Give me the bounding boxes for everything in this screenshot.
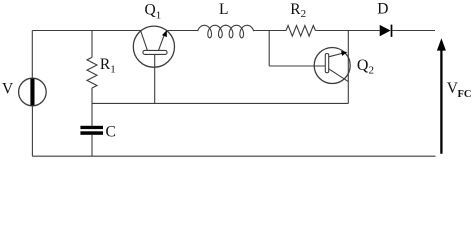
transistor Q2 emitter arrowhead: [341, 51, 347, 56]
capacitor C top plate: [80, 126, 103, 129]
wire bottom rail: [32, 155, 435, 157]
transistor Q1 base lead down: [154, 55, 156, 104]
wire Q1 to inductor: [167, 30, 199, 32]
wire junction to Q2 base vertical: [268, 31, 270, 67]
transistor Q1 collector lead: [140, 30, 147, 50]
svg-text:R2: R2: [290, 1, 306, 20]
wire left vertical lower: [31, 106, 33, 156]
svg-text:Q1: Q1: [145, 2, 162, 22]
svg-text:C: C: [106, 124, 116, 141]
svg-text:D: D: [377, 0, 388, 17]
wire top-left segment: [32, 30, 141, 32]
transistor Q1 emitter arrowhead: [162, 30, 167, 37]
voltage source V1 bar: [30, 79, 34, 106]
transistor Q1 emitter lead: [159, 32, 166, 50]
diode D triangle: [380, 25, 391, 36]
transistor Q1 base bar: [143, 50, 167, 54]
svg-text:Q2: Q2: [357, 57, 374, 76]
transistor Q1 circle: [133, 26, 174, 67]
capacitor C bottom plate: [80, 131, 103, 135]
voltage source V1 circle: [19, 78, 47, 106]
wire capacitor to bottom rail: [91, 135, 93, 156]
wire Q2 right vertical: [347, 31, 349, 104]
wire middle rail: [92, 102, 348, 104]
wire left vertical upper: [31, 31, 33, 79]
transistor Q2 circle: [314, 48, 350, 84]
inductor L coil: [198, 25, 254, 38]
transistor Q2 emitter lead: [329, 53, 344, 57]
wire diode to right end: [392, 30, 435, 32]
wire inductor to R2: [253, 30, 286, 32]
wire R1 bottom to capacitor: [91, 88, 93, 126]
wire R1 branch top: [91, 31, 93, 58]
svg-text:V: V: [2, 81, 14, 98]
svg-text:R1: R1: [100, 56, 116, 75]
svg-text:VFC: VFC: [447, 80, 472, 100]
output arrow VFC head: [437, 38, 446, 50]
transistor Q2 base bar: [325, 54, 328, 73]
svg-text:L: L: [219, 1, 228, 18]
diode D cathode bar: [391, 25, 393, 37]
transistor Q2 collector lead: [329, 69, 349, 82]
output arrow VFC line: [440, 48, 442, 154]
wire R2 to diode: [315, 30, 379, 32]
resistor R1 zigzag: [87, 57, 97, 88]
wire Q2 base horizontal: [269, 65, 325, 67]
resistor R2 zigzag: [286, 25, 315, 36]
